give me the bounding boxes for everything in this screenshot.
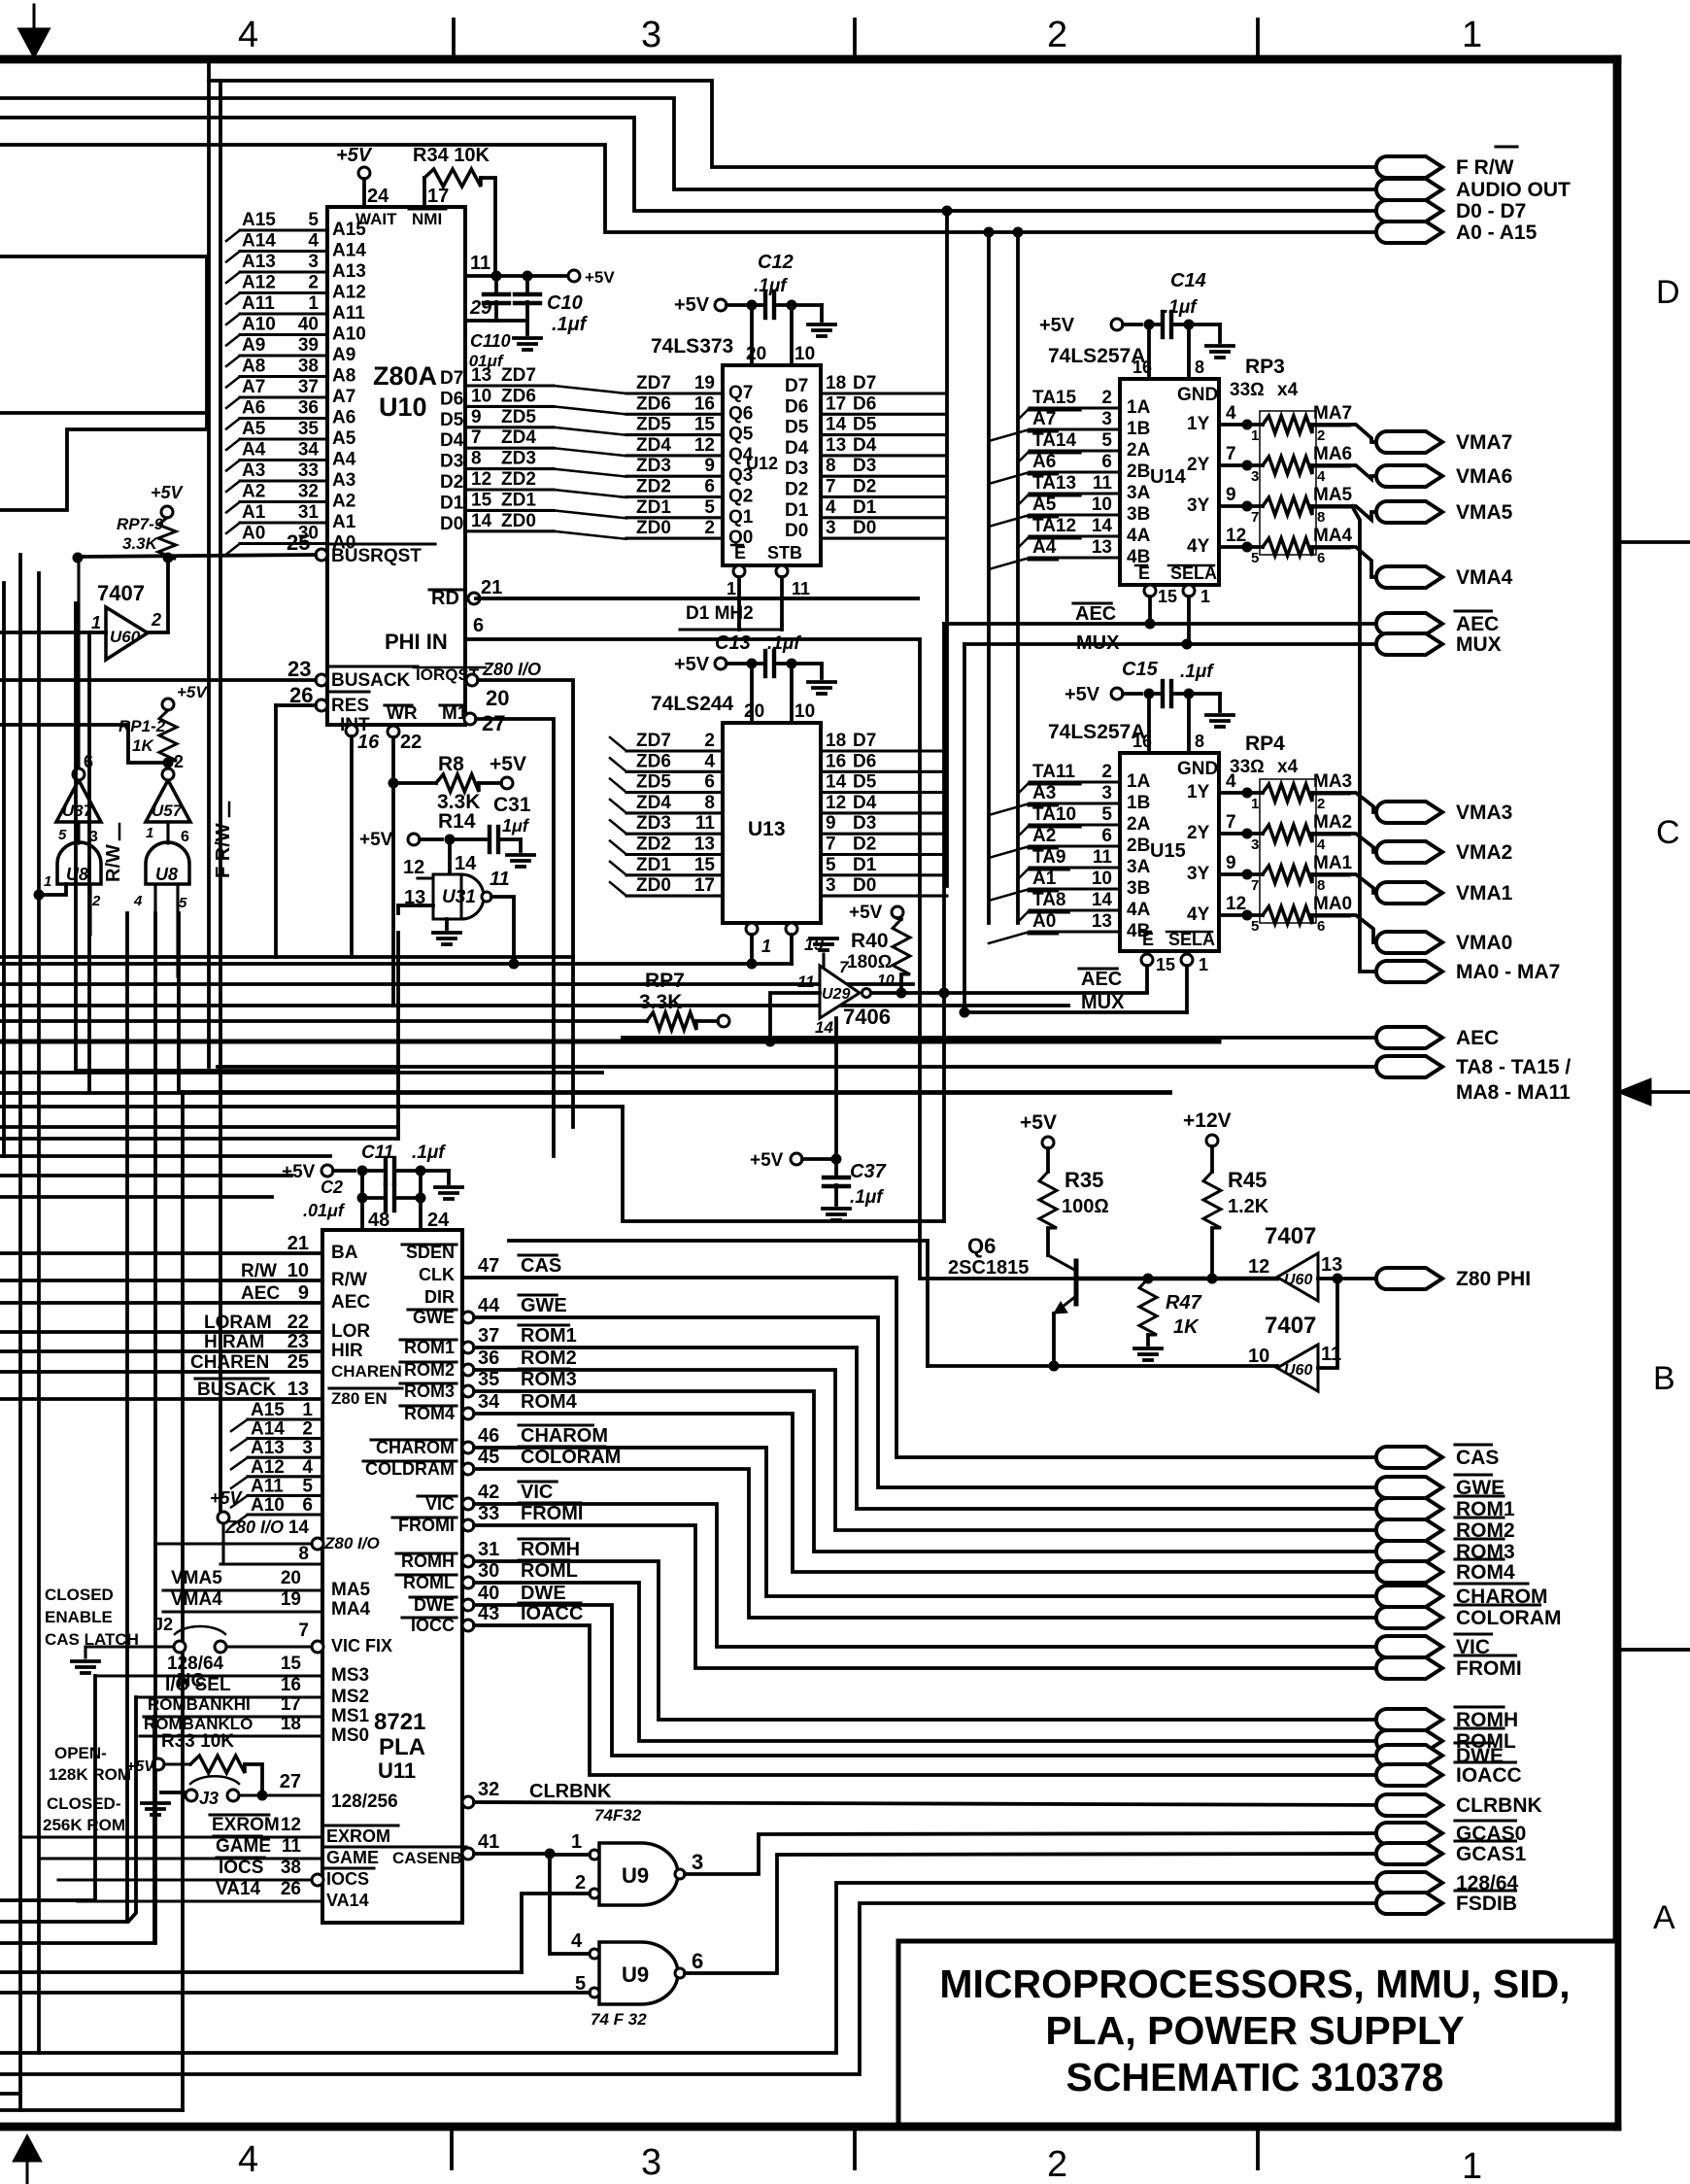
svg-text:C11: C11 bbox=[361, 1143, 393, 1163]
svg-text:VMA7: VMA7 bbox=[1456, 431, 1512, 454]
svg-text:2: 2 bbox=[151, 610, 161, 630]
svg-text:6: 6 bbox=[181, 829, 189, 845]
resistor RP4-1 MA3 bbox=[1263, 784, 1312, 802]
svg-text:D1: D1 bbox=[853, 855, 877, 875]
wire AEC flag line bbox=[623, 1036, 1387, 1040]
grid tick top 4/3 bbox=[452, 19, 456, 59]
jumper J3 bbox=[142, 1801, 169, 1805]
svg-text:5: 5 bbox=[179, 895, 187, 911]
svg-text:128/256: 128/256 bbox=[331, 1792, 398, 1812]
wire U13 pin 12 D4 bbox=[821, 811, 947, 814]
svg-text:U31: U31 bbox=[442, 887, 476, 907]
flag MA0-MA7 bbox=[1376, 961, 1442, 982]
wire mesh steps bbox=[76, 1069, 398, 1073]
svg-text:TA13: TA13 bbox=[1032, 473, 1076, 494]
wire Q6 base bbox=[1076, 1277, 1277, 1280]
svg-text:U11: U11 bbox=[378, 1758, 416, 1783]
svg-text:ZD7: ZD7 bbox=[501, 365, 536, 386]
ground J2 bbox=[84, 1647, 86, 1657]
pla U11 pin 4 A12 bbox=[248, 1475, 322, 1478]
wire U13 pin 8 ZD4 bbox=[626, 811, 723, 814]
svg-text:D0: D0 bbox=[440, 514, 463, 534]
svg-text:34: 34 bbox=[298, 440, 320, 461]
svg-text:2: 2 bbox=[1047, 15, 1067, 55]
svg-text:1: 1 bbox=[1462, 2146, 1482, 2184]
svg-text:.1μf: .1μf bbox=[552, 314, 589, 335]
svg-text:CLOSED: CLOSED bbox=[45, 1586, 114, 1604]
svg-text:3: 3 bbox=[1251, 836, 1259, 853]
svg-text:x4: x4 bbox=[1277, 380, 1299, 400]
svg-text:BA: BA bbox=[331, 1243, 358, 1263]
svg-text:A: A bbox=[1653, 1899, 1675, 1936]
svg-text:MS0: MS0 bbox=[331, 1725, 369, 1746]
svg-text:128K ROM: 128K ROM bbox=[49, 1765, 131, 1784]
svg-text:FROMI: FROMI bbox=[521, 1503, 583, 1524]
svg-text:MA7: MA7 bbox=[1313, 403, 1352, 424]
svg-text:12: 12 bbox=[1226, 894, 1246, 914]
grid tick bottom 3/2 bbox=[853, 2127, 857, 2168]
wire U12 pin 9 ZD3 bbox=[626, 475, 723, 478]
svg-text:8721: 8721 bbox=[374, 1709, 425, 1735]
svg-text:.1μf: .1μf bbox=[767, 633, 801, 654]
svg-text:15: 15 bbox=[281, 1654, 302, 1674]
grid tick bottom 2/1 bbox=[1256, 2127, 1260, 2168]
wire U12 pin 15 ZD5 bbox=[626, 433, 723, 436]
svg-text:ZD0: ZD0 bbox=[501, 511, 536, 531]
svg-text:A4: A4 bbox=[332, 450, 356, 470]
svg-text:MICROPROCESSORS, MMU, SID,: MICROPROCESSORS, MMU, SID, bbox=[939, 1962, 1570, 2006]
wire U14 pin 10 A5 bbox=[1030, 513, 1120, 516]
ground U29 pin7 bbox=[822, 954, 825, 966]
svg-text:A15: A15 bbox=[242, 210, 276, 230]
svg-text:30: 30 bbox=[478, 1560, 499, 1582]
svg-text:CAS: CAS bbox=[1456, 1447, 1499, 1469]
svg-text:A14: A14 bbox=[242, 231, 276, 252]
svg-text:3Y: 3Y bbox=[1187, 864, 1210, 884]
svg-text:MUX: MUX bbox=[1081, 992, 1125, 1013]
svg-text:RP7: RP7 bbox=[645, 970, 685, 992]
svg-text:18: 18 bbox=[826, 373, 846, 393]
svg-text:20: 20 bbox=[281, 1568, 301, 1588]
svg-text:128/64: 128/64 bbox=[167, 1654, 224, 1674]
svg-text:COLORAM: COLORAM bbox=[521, 1447, 621, 1468]
flag FSDIB bbox=[1376, 1893, 1442, 1914]
svg-text:A10: A10 bbox=[251, 1495, 285, 1516]
wire A-bus line bbox=[0, 411, 207, 415]
svg-text:32: 32 bbox=[298, 482, 319, 502]
svg-text:40: 40 bbox=[298, 315, 319, 335]
wire U10 pin 39 A9 bbox=[240, 354, 327, 357]
svg-text:D0 - D7: D0 - D7 bbox=[1456, 200, 1526, 222]
wire U13 pin 11 ZD3 bbox=[626, 833, 723, 836]
svg-text:A11: A11 bbox=[332, 303, 365, 324]
svg-text:+5V: +5V bbox=[490, 753, 526, 775]
svg-text:21: 21 bbox=[481, 577, 502, 598]
svg-text:HIRAM: HIRAM bbox=[204, 1332, 264, 1352]
svg-text:A0: A0 bbox=[242, 524, 265, 544]
svg-text:ZD5: ZD5 bbox=[501, 407, 536, 427]
svg-text:180Ω: 180Ω bbox=[847, 952, 892, 973]
ground C37 bbox=[823, 1207, 850, 1211]
svg-text:Q6: Q6 bbox=[728, 403, 753, 424]
cpu U10 pin22 WR bbox=[388, 726, 399, 737]
svg-text:+5V: +5V bbox=[126, 1758, 155, 1775]
svg-text:14: 14 bbox=[826, 772, 847, 793]
svg-text:ROM3: ROM3 bbox=[521, 1369, 577, 1390]
svg-text:23: 23 bbox=[287, 657, 311, 681]
wire U9a in4 link bbox=[550, 1854, 590, 1954]
svg-text:A4: A4 bbox=[1032, 537, 1057, 558]
pla U11 pin 6 A10 bbox=[248, 1513, 322, 1516]
border frame right bbox=[1613, 59, 1622, 2127]
svg-text:A9: A9 bbox=[242, 335, 265, 356]
svg-text:ZD5: ZD5 bbox=[636, 415, 671, 435]
wire U11 pin 46 CHAROM bbox=[462, 1442, 474, 1453]
resistor RP3-1 MA7 bbox=[1263, 416, 1312, 433]
svg-text:VA14: VA14 bbox=[216, 1879, 261, 1899]
svg-text:VIC: VIC bbox=[521, 1482, 553, 1503]
wire U13 pin 3 D0 bbox=[821, 895, 947, 898]
wire Z80 PHI out bbox=[1318, 1277, 1387, 1280]
wire MA5 to VMA5 bbox=[1312, 506, 1387, 520]
svg-text:27: 27 bbox=[280, 1771, 301, 1792]
svg-text:D2: D2 bbox=[440, 472, 463, 493]
svg-text:BUSACK: BUSACK bbox=[197, 1380, 277, 1400]
svg-text:.1μf: .1μf bbox=[1164, 297, 1198, 318]
svg-text:U60: U60 bbox=[110, 628, 141, 646]
svg-text:2: 2 bbox=[1317, 427, 1325, 444]
svg-text:MS1: MS1 bbox=[331, 1706, 370, 1726]
svg-text:7406: 7406 bbox=[843, 1005, 891, 1029]
svg-text:1A: 1A bbox=[1127, 397, 1151, 418]
svg-text:4: 4 bbox=[133, 893, 143, 909]
svg-text:Z80 I/O: Z80 I/O bbox=[224, 1518, 284, 1537]
svg-text:14: 14 bbox=[815, 1018, 833, 1037]
flag Z80 PHI bbox=[1376, 1268, 1442, 1289]
sheet arrow top-left bbox=[19, 5, 49, 56]
wire U9b output bbox=[685, 1854, 1387, 1973]
svg-text:12: 12 bbox=[1226, 526, 1246, 546]
svg-text:FROMI: FROMI bbox=[1456, 1657, 1522, 1680]
wire U8a pin1 bbox=[39, 884, 66, 895]
wire U29 input bbox=[770, 993, 820, 1041]
svg-text:VIC FIX: VIC FIX bbox=[331, 1636, 392, 1655]
svg-text:Z80 PHI: Z80 PHI bbox=[1456, 1268, 1531, 1290]
svg-text:3: 3 bbox=[692, 1850, 703, 1874]
wire U29 out drop bbox=[623, 1107, 944, 1221]
svg-text:1K: 1K bbox=[132, 736, 154, 755]
wire U10 pin 4 A14 bbox=[240, 250, 327, 253]
wire U14 pin16 bbox=[1147, 324, 1151, 379]
wire U29 pin14 vertical bbox=[834, 1018, 838, 1159]
svg-text:14: 14 bbox=[826, 415, 847, 435]
svg-text:D2: D2 bbox=[785, 480, 808, 500]
svg-text:+5V: +5V bbox=[1039, 315, 1075, 336]
wire U13 pin 16 D6 bbox=[821, 770, 947, 773]
wire U11 pin 36 ROM2 bbox=[462, 1364, 474, 1376]
wire U15 pin 3 A3 bbox=[1030, 802, 1120, 804]
wire U8b pin4 bbox=[153, 884, 156, 957]
wire AEC vertical drop bbox=[942, 624, 946, 1221]
wire U10 pin 37 A7 bbox=[240, 395, 327, 398]
svg-text:IOACC: IOACC bbox=[1456, 1764, 1522, 1787]
svg-text:+5V: +5V bbox=[674, 294, 710, 316]
svg-text:3B: 3B bbox=[1127, 504, 1150, 525]
svg-text:+5V: +5V bbox=[151, 483, 185, 502]
svg-text:11: 11 bbox=[792, 579, 810, 598]
svg-text:13: 13 bbox=[471, 365, 491, 386]
cpu U10 Z80A body bbox=[327, 207, 465, 725]
svg-text:A6: A6 bbox=[1032, 452, 1056, 472]
svg-text:1: 1 bbox=[146, 825, 153, 841]
svg-text:11: 11 bbox=[282, 1836, 302, 1857]
svg-text:6: 6 bbox=[692, 1949, 703, 1973]
svg-text:A13: A13 bbox=[251, 1438, 285, 1458]
svg-text:R33 10K: R33 10K bbox=[161, 1731, 234, 1752]
wire U9a output bbox=[685, 1833, 1387, 1874]
svg-text:+5V: +5V bbox=[210, 1488, 244, 1508]
svg-text:13: 13 bbox=[826, 435, 846, 456]
svg-text:D: D bbox=[1656, 274, 1680, 311]
svg-text:A12: A12 bbox=[242, 273, 276, 293]
svg-text:FSDIB: FSDIB bbox=[1456, 1893, 1517, 1915]
capacitor C31 bbox=[488, 827, 491, 852]
grid tick top 2/1 bbox=[1256, 19, 1260, 59]
title block bbox=[898, 1941, 1617, 2125]
wire D-bus vertical bbox=[945, 211, 949, 886]
svg-text:TA8: TA8 bbox=[1032, 890, 1065, 910]
svg-text:2: 2 bbox=[308, 273, 319, 293]
svg-text:VMA5: VMA5 bbox=[1456, 501, 1513, 524]
svg-text:R/W: R/W bbox=[241, 1261, 277, 1281]
svg-text:ROM2: ROM2 bbox=[521, 1348, 577, 1369]
cpu U10 pin20 Z80 I/O bbox=[466, 674, 478, 686]
svg-text:D1: D1 bbox=[440, 493, 464, 513]
svg-text:Q4: Q4 bbox=[728, 445, 754, 465]
svg-text:C110: C110 bbox=[470, 331, 511, 351]
svg-text:4: 4 bbox=[571, 1930, 583, 1952]
svg-text:5: 5 bbox=[1101, 430, 1112, 451]
svg-text:2B: 2B bbox=[1127, 461, 1150, 482]
wire U13 pin 4 ZD6 bbox=[626, 770, 723, 773]
svg-text:ZD6: ZD6 bbox=[636, 751, 671, 771]
border frame top bbox=[0, 55, 1617, 64]
svg-text:A10: A10 bbox=[332, 324, 366, 345]
svg-text:TA8 - TA15 /: TA8 - TA15 / bbox=[1456, 1056, 1571, 1078]
pla U11 pin 23 HIRAM bbox=[0, 1349, 322, 1353]
wire bus A0-A15 bbox=[0, 145, 1387, 232]
svg-text:ZD7: ZD7 bbox=[636, 373, 671, 393]
wire U12 pin 5 ZD1 bbox=[626, 516, 723, 519]
wire U10 pin29 bbox=[465, 319, 527, 323]
svg-text:1: 1 bbox=[1200, 587, 1210, 606]
svg-text:41: 41 bbox=[478, 1831, 499, 1853]
svg-text:Z80 I/O: Z80 I/O bbox=[323, 1534, 380, 1553]
svg-text:10: 10 bbox=[794, 344, 815, 364]
wire U10 pin 5 A15 bbox=[240, 228, 327, 231]
svg-text:48: 48 bbox=[368, 1210, 389, 1231]
svg-text:A7: A7 bbox=[242, 377, 265, 397]
svg-text:5: 5 bbox=[826, 855, 836, 875]
svg-text:1: 1 bbox=[761, 937, 771, 956]
ground R47 bbox=[1146, 1335, 1150, 1345]
wire U8b pin5 bbox=[176, 884, 179, 976]
svg-text:256K ROM: 256K ROM bbox=[43, 1816, 125, 1834]
wire U15 pin 6 A2 bbox=[1030, 844, 1120, 847]
svg-text:11: 11 bbox=[490, 869, 510, 890]
ground C31 bbox=[519, 839, 523, 851]
wire U10 pin 31 A1 bbox=[240, 521, 327, 524]
wire U8a pin2 bbox=[88, 884, 91, 935]
svg-text:25: 25 bbox=[287, 1351, 309, 1373]
flag ROM4 bbox=[1376, 1561, 1442, 1583]
svg-text:22: 22 bbox=[400, 732, 422, 753]
sheet arrow bottom-left bbox=[26, 2162, 29, 2184]
svg-text:3: 3 bbox=[1251, 468, 1259, 485]
svg-text:33: 33 bbox=[298, 461, 319, 481]
svg-text:10: 10 bbox=[877, 973, 895, 989]
svg-text:2SC1815: 2SC1815 bbox=[948, 1257, 1029, 1279]
svg-text:R/W: R/W bbox=[331, 1270, 367, 1290]
wire U15 pin 10 A1 bbox=[1030, 887, 1120, 890]
wire U11 pin 35 ROM3 bbox=[462, 1385, 474, 1397]
svg-text:46: 46 bbox=[478, 1425, 499, 1447]
row divider D/C bbox=[1617, 540, 1690, 544]
wire bus D0-D7 bbox=[0, 118, 1387, 211]
svg-text:C14: C14 bbox=[1170, 270, 1206, 291]
wire U15 pin 5 TA10 bbox=[1030, 823, 1120, 826]
wire U11 pin 33 FROMI bbox=[462, 1519, 474, 1531]
svg-text:1B: 1B bbox=[1127, 793, 1150, 813]
svg-text:2: 2 bbox=[91, 893, 101, 909]
wire MA4 to VMA4 bbox=[1312, 547, 1387, 577]
svg-text:D0: D0 bbox=[785, 521, 808, 541]
svg-text:23: 23 bbox=[287, 1331, 309, 1352]
svg-text:D5: D5 bbox=[853, 772, 877, 793]
svg-text:VMA1: VMA1 bbox=[1456, 882, 1513, 904]
svg-text:MA1: MA1 bbox=[1313, 853, 1353, 873]
wire FSDIB run bbox=[0, 1903, 1387, 2074]
svg-text:ZD1: ZD1 bbox=[636, 855, 671, 875]
pla U11 8721 body bbox=[322, 1230, 462, 1923]
svg-text:6: 6 bbox=[1101, 826, 1112, 846]
svg-text:+5V: +5V bbox=[674, 654, 710, 675]
svg-text:10: 10 bbox=[1248, 1346, 1269, 1367]
svg-text:ROM4: ROM4 bbox=[1456, 1561, 1515, 1584]
svg-text:8: 8 bbox=[704, 793, 715, 813]
svg-text:14: 14 bbox=[1092, 890, 1113, 910]
svg-text:8: 8 bbox=[1317, 877, 1325, 894]
svg-text:2B: 2B bbox=[1127, 836, 1150, 856]
flag ROM1 bbox=[1376, 1498, 1442, 1519]
svg-text:A6: A6 bbox=[332, 408, 355, 428]
svg-text:5: 5 bbox=[1251, 918, 1259, 935]
svg-text:7: 7 bbox=[1226, 444, 1236, 464]
pla U11 pin 25 CHAREN bbox=[0, 1370, 322, 1374]
wire MA1 to VMA1 bbox=[1312, 874, 1387, 893]
svg-text:.1μf: .1μf bbox=[850, 1187, 884, 1208]
flag A0-A15 bbox=[1376, 222, 1442, 243]
wire U13 pin 18 D7 bbox=[821, 749, 947, 752]
svg-text:ZD4: ZD4 bbox=[501, 427, 536, 448]
svg-text:14: 14 bbox=[455, 853, 477, 874]
svg-text:10: 10 bbox=[287, 1260, 309, 1281]
flag GCAS0 bbox=[1376, 1823, 1442, 1844]
flag COLORAM bbox=[1376, 1607, 1442, 1628]
svg-text:8: 8 bbox=[826, 456, 836, 476]
svg-text:D4: D4 bbox=[853, 793, 877, 813]
wire MA2 to VMA2 bbox=[1312, 834, 1387, 852]
flag GWE bbox=[1376, 1477, 1442, 1498]
svg-text:+5V: +5V bbox=[750, 1150, 784, 1171]
wire U31 in12 bbox=[418, 876, 433, 879]
grid tick bottom 4/3 bbox=[450, 2127, 454, 2168]
svg-text:33: 33 bbox=[478, 1503, 499, 1524]
svg-text:GAME: GAME bbox=[216, 1836, 271, 1857]
wire TA bus vertical 2 bbox=[1016, 232, 1020, 923]
wire U11 pin 30 ROML bbox=[462, 1577, 474, 1588]
svg-text:+5V: +5V bbox=[336, 145, 373, 166]
svg-text:A11: A11 bbox=[242, 293, 275, 314]
svg-text:ROM4: ROM4 bbox=[521, 1391, 578, 1413]
svg-text:A12: A12 bbox=[332, 283, 366, 303]
svg-text:A7: A7 bbox=[332, 387, 355, 407]
svg-text:R8: R8 bbox=[438, 753, 464, 775]
svg-text:I/O SEL: I/O SEL bbox=[165, 1675, 231, 1695]
svg-text:A8: A8 bbox=[332, 366, 355, 387]
wire U15 pin 14 TA8 bbox=[1030, 908, 1120, 911]
svg-text:20: 20 bbox=[746, 344, 766, 364]
svg-text:U57: U57 bbox=[152, 802, 184, 820]
svg-text:CLRBNK: CLRBNK bbox=[529, 1781, 612, 1802]
svg-text:GAME: GAME bbox=[326, 1848, 379, 1867]
svg-text:Z80 EN: Z80 EN bbox=[331, 1389, 388, 1408]
svg-text:RP3: RP3 bbox=[1245, 356, 1285, 378]
wire TAB-TA15 bus bbox=[218, 1065, 1387, 1069]
svg-text:ZD6: ZD6 bbox=[501, 386, 536, 406]
svg-text:A2: A2 bbox=[1032, 826, 1056, 846]
svg-text:1: 1 bbox=[1251, 796, 1259, 812]
wire bus F R/W bbox=[209, 81, 1387, 167]
wire U12 pin 2 ZD0 bbox=[626, 537, 723, 540]
wire left box A-bus bbox=[0, 256, 207, 510]
svg-text:31: 31 bbox=[478, 1539, 499, 1560]
svg-text:CLK: CLK bbox=[419, 1265, 455, 1284]
wire U10 pin 35 A5 bbox=[240, 437, 327, 440]
inverter U57 bbox=[146, 780, 190, 822]
svg-text:AEC: AEC bbox=[331, 1292, 370, 1313]
svg-text:A6: A6 bbox=[242, 398, 265, 419]
svg-text:2: 2 bbox=[1047, 2144, 1067, 2184]
svg-text:3: 3 bbox=[641, 15, 661, 55]
svg-text:29: 29 bbox=[469, 297, 492, 319]
svg-text:A13: A13 bbox=[332, 261, 366, 282]
wire U37 output up bbox=[77, 559, 80, 768]
svg-text:F R/W: F R/W bbox=[1456, 156, 1514, 179]
svg-text:R35: R35 bbox=[1065, 1168, 1103, 1192]
wire U10 pin 1 A11 bbox=[240, 312, 327, 315]
svg-text:MA4: MA4 bbox=[1313, 526, 1353, 546]
svg-text:4A: 4A bbox=[1127, 526, 1151, 546]
svg-text:33Ω: 33Ω bbox=[1230, 380, 1265, 400]
svg-text:GWE: GWE bbox=[521, 1295, 567, 1316]
svg-text:D6: D6 bbox=[853, 751, 876, 771]
ground C14 bbox=[1218, 324, 1222, 342]
svg-text:3B: 3B bbox=[1127, 878, 1150, 899]
wire U13 pin20 bbox=[750, 664, 754, 723]
svg-text:.1μf: .1μf bbox=[497, 816, 530, 836]
ground C12 bbox=[820, 305, 824, 321]
